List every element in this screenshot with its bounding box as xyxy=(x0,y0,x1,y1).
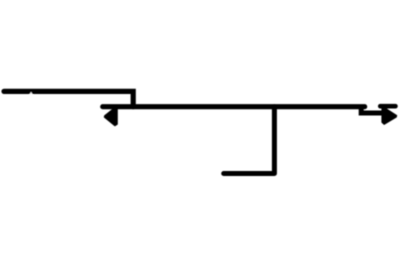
pan line xyxy=(103,104,365,109)
top-left flange with end vertical xyxy=(4,91,133,106)
notch in flange bottom xyxy=(29,92,33,95)
right top bar xyxy=(380,104,395,109)
left hook xyxy=(104,108,117,126)
right hook xyxy=(382,107,397,124)
center L bracket xyxy=(224,107,275,174)
right step and ledge xyxy=(361,106,384,113)
